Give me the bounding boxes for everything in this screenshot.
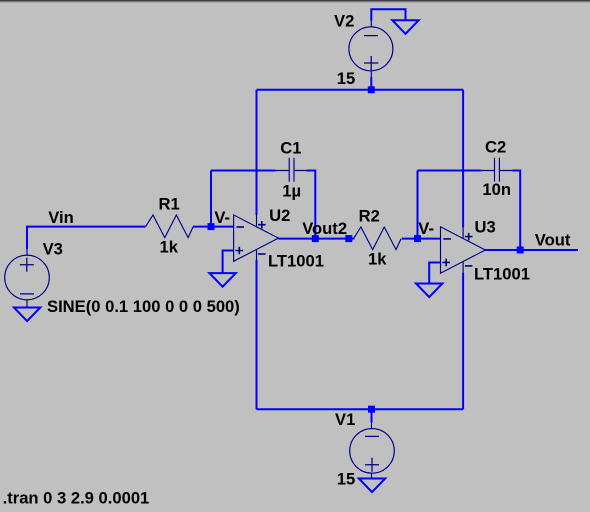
voltage source V3 pin stubs (26, 249, 28, 307)
op-amp U3 V- power mark (465, 265, 473, 267)
wire U2 feedback horizontal to C1 (211, 170, 275, 172)
junction node Vout2 label anchor (345, 235, 352, 242)
op-amp U2 V+ pin stub (256, 215, 258, 228)
voltage source V2 minus mark (364, 35, 378, 37)
svg-text:1µ: 1µ (282, 181, 301, 200)
wire U2 V- pin to bottom rail (256, 260, 258, 409)
wire V- supply bottom rail (257, 408, 464, 410)
junction V2 at top rail (368, 86, 375, 93)
op-amp U3 inverting input mark (443, 238, 451, 240)
svg-text:Vout: Vout (535, 231, 571, 250)
svg-text:U2: U2 (269, 206, 290, 225)
junction node Vout2 at C1 feedback (312, 235, 319, 242)
wire V2 bottom stem (370, 77, 372, 90)
op-amp U2 non-inverting input mark (236, 247, 244, 255)
ground at V3 (14, 308, 40, 322)
voltage source V3 plus mark (20, 258, 34, 272)
svg-text:1k: 1k (368, 249, 387, 268)
op-amp U3 triangle (441, 227, 486, 273)
voltage source V3 minus mark (20, 293, 34, 295)
svg-text:V3: V3 (43, 240, 63, 259)
svg-text:V1: V1 (335, 410, 355, 429)
op-amp U2 triangle (234, 215, 279, 261)
junction node V- at R2 / U3 input (414, 235, 421, 242)
svg-text:1k: 1k (160, 237, 179, 256)
op-amp U3 V+ power mark (465, 233, 473, 241)
wire U2 feedback vertical left (210, 171, 212, 227)
svg-text:SINE(0 0.1 100 0 0 0 500): SINE(0 0.1 100 0 0 0 500) (47, 297, 240, 316)
wire V1 top stem (371, 409, 373, 423)
resistor R2 (354, 227, 402, 250)
svg-text:R2: R2 (359, 207, 380, 226)
wire Vin net: V3 stem (27, 227, 146, 250)
ground at U2 non-inverting input (209, 273, 235, 287)
svg-text:10n: 10n (482, 180, 511, 199)
wire U3 feedback vertical left (417, 171, 419, 239)
ground at V1 (359, 479, 385, 493)
op-amp U2 V+ power mark (258, 221, 266, 229)
wire U3 output Vout (485, 249, 578, 251)
op-amp U2 inverting input mark (236, 226, 244, 228)
wire V+ supply top rail (257, 89, 464, 91)
svg-text:V2: V2 (334, 11, 354, 30)
junction V1 at bottom rail (368, 406, 375, 413)
wire C2 to feedback corner (512, 171, 520, 251)
svg-text:V-: V- (214, 208, 230, 227)
wire R2 to U3 inverting input (402, 238, 441, 240)
ground at U3 non-inverting input (416, 284, 442, 298)
ground at V2 (392, 20, 418, 34)
op-amp U3 V+ pin stub (462, 227, 464, 239)
op-amp U2 V- pin stub (256, 250, 258, 260)
svg-text:LT1001: LT1001 (474, 265, 530, 284)
voltage source V1 minus mark (365, 435, 379, 437)
svg-text:Vin: Vin (48, 208, 74, 227)
svg-text:U3: U3 (475, 218, 496, 237)
wire U3 non-inverting input to ground (429, 263, 440, 284)
wire U3 feedback horizontal to C2 (418, 170, 481, 172)
wire U2 output to R2 (278, 238, 354, 240)
wire top rail left drop to U2 V+ pin (256, 90, 258, 215)
svg-text:15: 15 (337, 470, 355, 489)
svg-text:V-: V- (418, 219, 434, 238)
capacitor C2 (481, 158, 512, 182)
svg-text:Vout2: Vout2 (302, 219, 347, 238)
wire top rail right drop to U3 V+ pin (462, 90, 464, 227)
voltage source V2 pin stubs (370, 21, 372, 78)
junction node Vout at C2 feedback (517, 247, 524, 254)
voltage source V2 plus mark (364, 56, 378, 70)
voltage source V3 circle (5, 255, 50, 300)
junction node V- at R1 / U2 input (208, 223, 215, 230)
svg-text:R1: R1 (159, 195, 180, 214)
wire R1 to U2 inverting input (193, 226, 234, 228)
wire C1 to feedback corner (307, 171, 316, 239)
op-amp U2 V- power mark (258, 253, 266, 255)
op-amp U3 V- pin stub (462, 261, 464, 273)
svg-text:15: 15 (337, 69, 355, 88)
voltage source V2 circle (349, 27, 393, 71)
resistor R1 (146, 215, 194, 238)
svg-text:.tran 0 3 2.9 0.0001: .tran 0 3 2.9 0.0001 (3, 489, 150, 508)
voltage source V1 circle (350, 429, 395, 474)
voltage source V1 plus mark (365, 458, 379, 472)
op-amp U3 non-inverting input mark (442, 259, 450, 267)
voltage source V1 pin stubs (371, 423, 373, 479)
svg-text:C2: C2 (485, 138, 506, 157)
capacitor C1 (275, 158, 306, 182)
wire V2 top to ground (371, 9, 405, 20)
wire U3 V- pin to bottom rail (462, 273, 464, 409)
wire U2 non-inverting input to ground (223, 251, 234, 274)
svg-text:C1: C1 (280, 138, 301, 157)
svg-text:LT1001: LT1001 (268, 251, 324, 270)
